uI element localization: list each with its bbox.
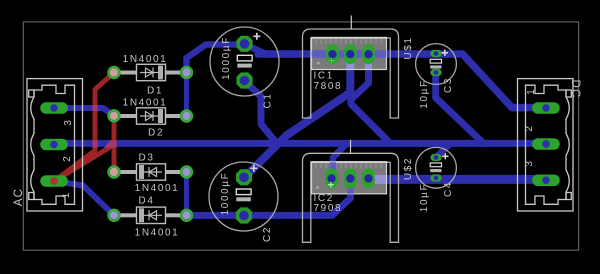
label U$2: [403, 157, 414, 180]
label D1 name: [147, 86, 163, 97]
diode D3 body: [119, 164, 182, 180]
label D3 value 1N4001: [135, 183, 180, 194]
AC pin 2: [62, 155, 73, 162]
wire D1 cathode to D2 cathode (blue): [184, 73, 189, 117]
junction overlap red x blue crossings: [92, 105, 116, 148]
svg-text:1: 1: [61, 192, 72, 199]
trace tint under IC tabs: [312, 50, 387, 194]
wire AC pad3 to D4 anode (blue): [54, 181, 114, 215]
label U$1: [403, 36, 414, 59]
diode D2 pads: [109, 110, 193, 121]
wire AC pad3 to D2-D3 anode column (red): [55, 145, 114, 181]
DC pin 1: [526, 88, 537, 95]
label IC1 value 7808: [314, 81, 343, 92]
svg-text:3: 3: [63, 119, 74, 126]
diode D3 pads: [109, 167, 193, 178]
svg-text:D2: D2: [148, 128, 164, 139]
label C4 value 10uF: [419, 183, 430, 212]
svg-text:U$1: U$1: [403, 36, 414, 59]
wire ground bus AC pad2 to DC pad2 (blue): [54, 140, 546, 147]
svg-text:D3: D3: [139, 153, 155, 164]
capacitor C3 outline: [416, 44, 457, 85]
svg-text:C2: C2: [262, 226, 273, 242]
label C3 name: [443, 77, 454, 93]
label C3 value 10uF: [419, 79, 430, 108]
wire D3 cathode to D4 cathode (blue): [184, 172, 189, 215]
diode D1 pads: [109, 67, 193, 78]
wire C1 minus to ground bus (blue): [245, 81, 277, 144]
capacitor C1 pads: [236, 36, 252, 89]
label IC1 name: [314, 71, 334, 82]
label C2 value 1000uF: [220, 172, 231, 216]
svg-text:7908: 7908: [314, 203, 343, 214]
label D4 name: [139, 196, 155, 207]
label D4 value 1N4001: [135, 228, 180, 239]
svg-text:DC: DC: [569, 79, 581, 98]
regulator IC2 package outline: [303, 140, 399, 243]
regulator IC1 package outline: [303, 16, 399, 119]
wire AC pad1 to D2 anode (blue): [54, 108, 114, 116]
wire D2 anode to D3 anode (red): [112, 116, 117, 172]
board outline: [23, 22, 578, 250]
svg-text:IC1: IC1: [314, 71, 334, 82]
capacitor C4 outline: [416, 147, 457, 188]
svg-text:10µF: 10µF: [419, 183, 430, 212]
label D1 value 1N4001: [123, 54, 168, 65]
svg-text:1N4001: 1N4001: [135, 228, 180, 239]
diode D2 body: [119, 108, 182, 124]
wire IC2 pin3 to C4 minus to DC pad3 (blue): [369, 175, 547, 184]
wire C4 plus to ground bus (blue): [436, 144, 450, 158]
wire D4 cathode to C2 minus to IC2 pin2 (blue): [187, 179, 351, 216]
svg-text:AC: AC: [13, 188, 25, 206]
svg-text:7808: 7808: [314, 81, 343, 92]
capacitor C4 pads: [430, 154, 441, 182]
wire AC pad3 to D1 anode (red): [55, 73, 115, 182]
svg-text:1000µF: 1000µF: [221, 36, 232, 80]
label D2 name: [148, 128, 164, 139]
svg-text:D4: D4: [139, 196, 155, 207]
label DC: [569, 79, 581, 98]
svg-text:C4: C4: [443, 181, 454, 197]
label D2 value 1N4001: [123, 98, 168, 109]
diode D1 body: [119, 64, 182, 80]
label D3 name: [139, 153, 155, 164]
svg-text:3: 3: [524, 160, 535, 167]
DC pin 3: [524, 160, 535, 167]
svg-text:2: 2: [62, 155, 73, 162]
svg-text:1: 1: [526, 88, 537, 95]
label C4 name: [443, 181, 454, 197]
svg-text:1N4001: 1N4001: [123, 98, 168, 109]
label C1 name: [263, 93, 274, 109]
capacitor C3 pads: [430, 50, 441, 76]
wire IC1 pin2 to C2 plus (blue): [245, 56, 351, 177]
svg-text:1N4001: 1N4001: [123, 54, 168, 65]
AC connector pads: [40, 102, 68, 187]
svg-text:D1: D1: [147, 86, 163, 97]
AC pin 1: [61, 192, 72, 199]
capacitor C2 outline: [209, 162, 278, 231]
label C2 name: [262, 226, 273, 242]
regulator IC1 pads: [326, 44, 375, 64]
wire C3 minus to ground bus (blue): [436, 73, 484, 144]
wire IC1 pin3 to ground bus (blue): [351, 56, 391, 144]
wire ground bus to IC2 pin1 (blue): [333, 144, 347, 179]
svg-text:2: 2: [524, 125, 535, 132]
label AC: [13, 188, 25, 206]
label IC2 name: [314, 193, 334, 204]
label C1 value 1000uF: [221, 36, 232, 80]
capacitor C1 outline: [210, 27, 279, 96]
label IC2 value 7908: [314, 203, 343, 214]
capacitor C2 pads: [236, 169, 252, 223]
regulator IC2 pads: [325, 169, 375, 189]
diode D4 pads: [109, 210, 193, 221]
DC connector X2 body outline: [518, 79, 574, 211]
svg-text:U$2: U$2: [403, 157, 414, 180]
svg-text:C3: C3: [443, 77, 454, 93]
DC connector pads: [532, 102, 560, 186]
DC pin 2: [524, 125, 535, 132]
svg-text:10µF: 10µF: [419, 79, 430, 108]
svg-text:1N4001: 1N4001: [135, 183, 180, 194]
svg-text:1000µF: 1000µF: [220, 172, 231, 216]
AC connector X1 body outline: [27, 79, 83, 211]
AC pin 3: [63, 119, 74, 126]
diode D4 body: [119, 207, 182, 223]
svg-text:C1: C1: [263, 93, 274, 109]
wire D1 cathode to C1 plus to IC1 pin row to DC pad1 (blue): [187, 45, 547, 108]
